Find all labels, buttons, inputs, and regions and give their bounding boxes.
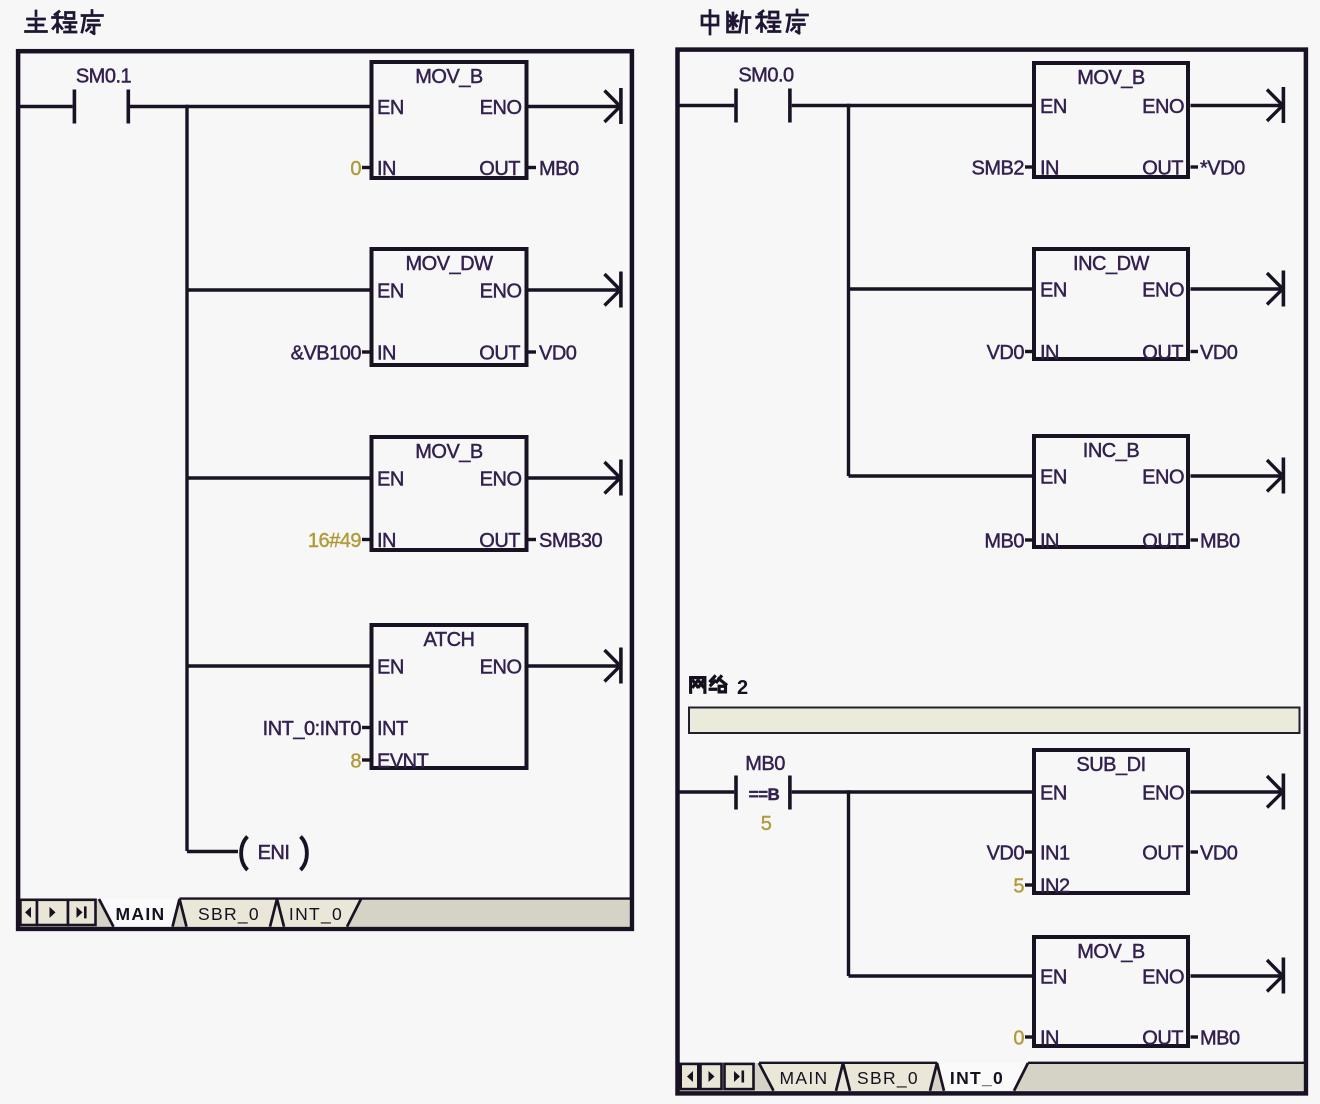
wire net1 rung3 bbox=[849, 474, 1035, 477]
svg-text:MB0: MB0 bbox=[984, 531, 1024, 553]
svg-text:MB0: MB0 bbox=[1200, 531, 1240, 553]
svg-text:ENO: ENO bbox=[480, 97, 522, 119]
nav button first INT bbox=[681, 1064, 699, 1089]
function block SUB_DI bbox=[1034, 750, 1188, 898]
nav button first bbox=[20, 900, 37, 925]
wire net2 rung1 left bbox=[679, 790, 734, 793]
wire net2 branch vertical bbox=[847, 790, 850, 976]
svg-text:MOV_B: MOV_B bbox=[415, 66, 483, 88]
svg-text:IN1: IN1 bbox=[1040, 843, 1070, 865]
svg-text:INT: INT bbox=[377, 718, 408, 740]
arrow rung3 output bbox=[605, 460, 621, 496]
wire net1 rung1 to block bbox=[792, 104, 1034, 107]
tab separator backslash after nav INT bbox=[759, 1063, 774, 1091]
function block MOV_DW bbox=[372, 249, 527, 365]
function block INC_B bbox=[1034, 436, 1188, 553]
panel frame MAIN bbox=[18, 51, 632, 929]
tab INT_0 active background bbox=[937, 1063, 1028, 1091]
network 2 label 网络 2 bbox=[691, 677, 749, 700]
svg-text:*VD0: *VD0 bbox=[1200, 158, 1245, 180]
svg-text:INT_0: INT_0 bbox=[950, 1068, 1004, 1088]
arrow net1 rung3 output bbox=[1267, 458, 1283, 494]
svg-text:EN: EN bbox=[377, 281, 404, 303]
title 中断程序 (interrupt program) bbox=[702, 10, 808, 34]
value MB0 at IN of INC_B bbox=[984, 531, 1032, 553]
node OUT to VD0 bbox=[529, 343, 577, 365]
function block MOV_B (network1 rung3) bbox=[372, 437, 527, 552]
tab bar MAIN panel: tabs SBR_0 INT_0 background bbox=[180, 899, 362, 927]
svg-text:MOV_B: MOV_B bbox=[415, 441, 483, 463]
value 16#49 at IN bbox=[308, 530, 370, 552]
function block MOV_B (network1 rung1) bbox=[372, 62, 527, 180]
svg-text:2: 2 bbox=[737, 677, 748, 699]
title 主程序 (main program) bbox=[26, 11, 103, 34]
node OUT to SMB30 bbox=[529, 530, 603, 552]
svg-text:OUT: OUT bbox=[1142, 531, 1183, 553]
value VD0 at IN1 bbox=[987, 843, 1032, 865]
svg-text:EN: EN bbox=[1040, 967, 1067, 989]
wire rung2 ENO bbox=[529, 288, 620, 291]
svg-text:OUT: OUT bbox=[1142, 158, 1183, 180]
svg-text:IN: IN bbox=[1040, 531, 1059, 553]
svg-text:SM0.1: SM0.1 bbox=[76, 66, 132, 88]
tab bar INT panel: base strip bbox=[680, 1063, 1304, 1091]
wire rung1 left segment bbox=[20, 105, 73, 108]
tab bar INT top border segments bbox=[759, 1062, 1304, 1064]
svg-text:16#49: 16#49 bbox=[308, 530, 361, 552]
node OUT to VD0 of INC_DW bbox=[1191, 342, 1238, 364]
svg-text:IN: IN bbox=[1040, 158, 1059, 180]
node OUT to MB0 of INC_B bbox=[1191, 531, 1241, 553]
svg-text:EN: EN bbox=[1040, 783, 1067, 805]
tab separator slash after INT_0 bbox=[1014, 1063, 1028, 1091]
svg-text:IN: IN bbox=[377, 158, 396, 180]
function block ATCH bbox=[372, 625, 527, 773]
svg-text:0: 0 bbox=[350, 158, 361, 180]
wire net2 rung1 to block bbox=[792, 790, 1034, 793]
svg-text:ENO: ENO bbox=[1142, 467, 1184, 489]
arrow net1 rung2 output bbox=[1267, 271, 1283, 307]
tab separator lambda MAIN/SBR_0 bbox=[173, 899, 187, 927]
svg-text:INT_0:INT0: INT_0:INT0 bbox=[263, 718, 362, 740]
svg-text:VD0: VD0 bbox=[987, 843, 1025, 865]
svg-text:ATCH: ATCH bbox=[424, 629, 475, 651]
svg-text:ENO: ENO bbox=[480, 657, 522, 679]
wire net2 rung2 ENO bbox=[1191, 974, 1282, 977]
tab separator lambda SBR_0/INT_0 INT panel bbox=[930, 1063, 944, 1091]
value 5 at IN2 bbox=[1013, 876, 1032, 898]
arrow net2 rung1 output bbox=[1267, 774, 1283, 810]
function block INC_DW bbox=[1034, 249, 1188, 364]
svg-text:IN: IN bbox=[377, 343, 396, 365]
network 2 title bar bbox=[689, 708, 1300, 734]
value &VB100 at IN bbox=[291, 343, 370, 365]
wire net1 rung1 ENO bbox=[1191, 104, 1282, 107]
svg-text:MB0: MB0 bbox=[1200, 1028, 1240, 1050]
svg-text:5: 5 bbox=[1013, 876, 1024, 898]
svg-text:OUT: OUT bbox=[479, 343, 520, 365]
wire rung2 bbox=[187, 288, 372, 291]
svg-text:==B: ==B bbox=[749, 785, 780, 804]
node OUT to VD0 of SUB_DI bbox=[1191, 843, 1238, 865]
wire net1 rung3 ENO bbox=[1191, 474, 1282, 477]
arrow rung4 output bbox=[605, 648, 621, 684]
tab separator lambda MAIN/SBR_0 INT panel bbox=[836, 1063, 850, 1091]
svg-text:ENO: ENO bbox=[480, 469, 522, 491]
svg-text:EN: EN bbox=[1040, 280, 1067, 302]
tab separator lambda SBR_0/INT_0 bbox=[270, 899, 284, 927]
coil ENI bbox=[241, 837, 307, 871]
svg-text:IN: IN bbox=[1040, 1028, 1059, 1050]
svg-text:MB0: MB0 bbox=[539, 158, 579, 180]
svg-text:INC_DW: INC_DW bbox=[1073, 253, 1150, 275]
wire ENI rung bbox=[187, 850, 238, 853]
wire net1 branch vertical bbox=[847, 104, 850, 476]
wire net1 rung2 ENO bbox=[1191, 287, 1282, 290]
svg-text:SMB2: SMB2 bbox=[972, 158, 1025, 180]
svg-text:SBR_0: SBR_0 bbox=[198, 904, 260, 925]
svg-text:INC_B: INC_B bbox=[1083, 440, 1140, 462]
arrow rung1 output bbox=[605, 88, 621, 124]
svg-text:MAIN: MAIN bbox=[780, 1068, 829, 1088]
wire rung3 ENO bbox=[529, 476, 620, 479]
svg-text:EN: EN bbox=[377, 97, 404, 119]
function block MOV_B (interrupt rung1) bbox=[1034, 63, 1188, 180]
node OUT to *VD0 bbox=[1191, 158, 1246, 180]
wire rung3 bbox=[187, 476, 372, 479]
tab bar top border over tabs and spare bar bbox=[180, 897, 632, 899]
svg-text:SMB30: SMB30 bbox=[539, 530, 602, 552]
arrow net2 rung2 output bbox=[1267, 958, 1283, 994]
svg-text:OUT: OUT bbox=[1142, 342, 1183, 364]
svg-text:IN2: IN2 bbox=[1040, 876, 1070, 898]
tab separator slash after INT_0 bbox=[347, 899, 361, 927]
svg-text:ENO: ENO bbox=[1142, 967, 1184, 989]
wire net2 rung1 ENO bbox=[1191, 790, 1282, 793]
nav button prev INT bbox=[701, 1064, 722, 1089]
svg-text:SM0.0: SM0.0 bbox=[738, 65, 794, 87]
svg-text:EN: EN bbox=[377, 469, 404, 491]
svg-text:MOV_B: MOV_B bbox=[1077, 67, 1145, 89]
value 0 at IN of MOV_B bbox=[1013, 1028, 1032, 1050]
tab bar MAIN panel: base strip bbox=[20, 899, 629, 927]
svg-text:VD0: VD0 bbox=[539, 343, 577, 365]
wire net2 rung2 bbox=[849, 974, 1035, 977]
svg-text:ENO: ENO bbox=[1142, 280, 1184, 302]
svg-text:0: 0 bbox=[1013, 1028, 1024, 1050]
wire rung1 ENO bbox=[529, 105, 620, 108]
svg-text:IN: IN bbox=[377, 530, 396, 552]
wire net1 rung1 left bbox=[679, 104, 734, 107]
tab bar INT panel: tabs MAIN SBR_0 background bbox=[759, 1063, 937, 1091]
function block MOV_B (interrupt net2) bbox=[1034, 937, 1188, 1050]
nav button next bbox=[68, 900, 96, 925]
value SMB2 at IN bbox=[972, 158, 1032, 180]
value INT_0:INT0 at INT bbox=[263, 718, 370, 740]
wire rung4 ENO bbox=[529, 664, 620, 667]
svg-text:EN: EN bbox=[377, 657, 404, 679]
value VD0 at IN of INC_DW bbox=[987, 342, 1032, 364]
nav button prev bbox=[37, 900, 68, 925]
node OUT to MB0 bbox=[529, 158, 580, 180]
svg-text:EVNT: EVNT bbox=[377, 751, 429, 773]
arrow rung2 output bbox=[605, 272, 621, 308]
svg-text:IN: IN bbox=[1040, 342, 1059, 364]
nav button next INT bbox=[725, 1064, 754, 1089]
panel frame INT bbox=[678, 50, 1306, 1094]
value 0 at IN bbox=[350, 158, 369, 180]
svg-text:VD0: VD0 bbox=[1200, 843, 1238, 865]
tab MAIN active background bbox=[99, 899, 180, 927]
svg-text:5: 5 bbox=[761, 813, 772, 835]
tab separator backslash after nav bbox=[99, 899, 114, 927]
svg-text:OUT: OUT bbox=[479, 158, 520, 180]
svg-text:VD0: VD0 bbox=[1200, 342, 1238, 364]
wire rung1 to block bbox=[130, 105, 372, 108]
svg-text:SUB_DI: SUB_DI bbox=[1076, 754, 1145, 776]
svg-text:SBR_0: SBR_0 bbox=[857, 1068, 919, 1089]
svg-text:MOV_DW: MOV_DW bbox=[406, 253, 494, 275]
wire branch vertical bbox=[185, 105, 188, 851]
svg-text:MAIN: MAIN bbox=[116, 904, 166, 924]
svg-text:OUT: OUT bbox=[1142, 843, 1183, 865]
svg-text:ENO: ENO bbox=[1142, 783, 1184, 805]
svg-text:ENI: ENI bbox=[258, 842, 290, 864]
svg-text:VD0: VD0 bbox=[987, 342, 1025, 364]
svg-text:EN: EN bbox=[1040, 96, 1067, 118]
svg-text:MB0: MB0 bbox=[745, 753, 785, 775]
contact SM0.0 bbox=[736, 65, 794, 123]
contact SM0.1 bbox=[74, 66, 131, 124]
svg-text:INT_0: INT_0 bbox=[289, 904, 343, 925]
value 8 at EVNT bbox=[350, 751, 369, 773]
svg-text:OUT: OUT bbox=[1142, 1028, 1183, 1050]
svg-text:ENO: ENO bbox=[480, 281, 522, 303]
svg-text:OUT: OUT bbox=[479, 530, 520, 552]
arrow net1 rung1 output bbox=[1267, 87, 1283, 123]
svg-text:&VB100: &VB100 bbox=[291, 343, 362, 365]
svg-text:ENO: ENO bbox=[1142, 96, 1184, 118]
node OUT to MB0 of net2 MOV_B bbox=[1191, 1028, 1241, 1050]
contact compare MB0 ==B bbox=[736, 753, 790, 835]
svg-text:8: 8 bbox=[350, 751, 361, 773]
svg-text:EN: EN bbox=[1040, 467, 1067, 489]
wire rung4 bbox=[187, 664, 372, 667]
wire net1 rung2 bbox=[849, 287, 1035, 290]
svg-text:MOV_B: MOV_B bbox=[1077, 941, 1145, 963]
